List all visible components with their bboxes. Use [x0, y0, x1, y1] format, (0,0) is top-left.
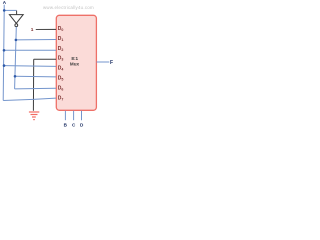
svg-text:A: A [3, 0, 7, 5]
wire D2 [4, 49, 56, 51]
mux U2 8:1 [56, 15, 96, 110]
svg-text:www.electrically4u.com: www.electrically4u.com [43, 5, 94, 10]
svg-text:B: B [64, 122, 68, 127]
ground [29, 112, 39, 120]
junction D1 [15, 39, 18, 42]
pin C wire [73, 111, 75, 120]
junction D2 [3, 49, 6, 52]
wire F output [97, 61, 110, 63]
svg-text:1: 1 [31, 27, 34, 33]
inverter U1 [9, 15, 23, 24]
svg-text:C: C [72, 122, 76, 127]
svg-text:F: F [110, 60, 113, 66]
wire D7 (elbow from A net) [3, 98, 56, 100]
junction D4 [3, 64, 6, 67]
junction D5 [14, 75, 17, 78]
pin B wire [64, 111, 66, 120]
pin D wire [81, 111, 83, 120]
wire D5 [15, 75, 56, 78]
svg-text:Mux: Mux [70, 62, 80, 67]
wire A to inverter input [4, 9, 16, 11]
wire D3 from ground net [34, 58, 56, 60]
wire D0 [36, 28, 56, 30]
wire D4 [4, 65, 56, 68]
wire ground vertical [32, 59, 34, 111]
junction A elbow [3, 9, 6, 12]
wire A vertical (V1) [2, 5, 5, 101]
svg-text:D: D [80, 122, 84, 127]
svg-text:8:1: 8:1 [71, 56, 78, 61]
wire D6 (elbow from inverter net) [15, 87, 56, 90]
wire D1 [16, 39, 56, 41]
wire inverter output (V2) [15, 27, 17, 89]
